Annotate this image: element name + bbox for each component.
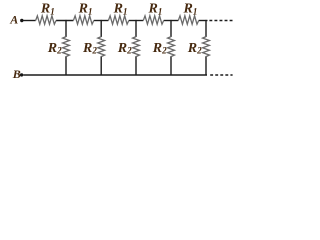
svg-text:R1: R1 <box>113 2 128 17</box>
svg-text:R1: R1 <box>40 2 55 17</box>
svg-text:R2: R2 <box>187 41 202 56</box>
svg-text:R1: R1 <box>78 2 93 17</box>
svg-text:A: A <box>9 13 18 27</box>
svg-text:R1: R1 <box>148 2 163 17</box>
svg-text:R2: R2 <box>117 41 132 56</box>
svg-text:B: B <box>12 67 21 81</box>
svg-text:R2: R2 <box>82 41 97 56</box>
svg-text:R1: R1 <box>183 2 198 17</box>
svg-text:R2: R2 <box>152 41 167 56</box>
svg-text:R2: R2 <box>47 41 62 56</box>
